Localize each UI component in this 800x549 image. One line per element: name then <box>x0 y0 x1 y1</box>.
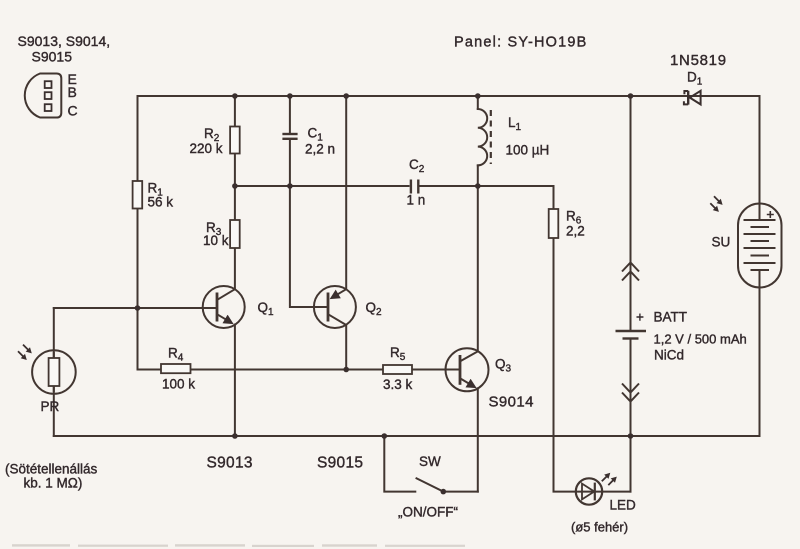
svg-text:3.3 k: 3.3 k <box>383 377 413 392</box>
svg-text:PR: PR <box>41 399 60 414</box>
svg-text:1 n: 1 n <box>407 193 426 208</box>
svg-text:S9013: S9013 <box>207 455 253 472</box>
svg-text:220 k: 220 k <box>190 141 223 156</box>
svg-text:„ON/OFF“: „ON/OFF“ <box>398 505 458 520</box>
svg-text:(ø5 fehér): (ø5 fehér) <box>571 520 628 535</box>
svg-text:56 k: 56 k <box>148 195 174 210</box>
svg-text:S9013, S9014,: S9013, S9014, <box>18 33 111 49</box>
svg-text:10 k: 10 k <box>203 233 229 248</box>
svg-text:B: B <box>68 84 77 100</box>
svg-text:100 µH: 100 µH <box>506 143 550 158</box>
svg-text:(Sötétellenállás: (Sötétellenállás <box>5 462 98 477</box>
svg-text:BATT: BATT <box>654 310 688 325</box>
svg-text:kb. 1 MΩ): kb. 1 MΩ) <box>24 476 83 491</box>
svg-text:C: C <box>68 103 78 119</box>
svg-text:+: + <box>636 310 644 325</box>
svg-text:SU: SU <box>712 235 731 250</box>
svg-text:S9015: S9015 <box>32 49 73 65</box>
svg-text:Panel: SY-HO19B: Panel: SY-HO19B <box>454 35 588 51</box>
svg-text:NiCd: NiCd <box>654 348 684 363</box>
svg-text:2,2: 2,2 <box>566 224 585 239</box>
svg-text:SW: SW <box>419 454 441 469</box>
svg-text:S9015: S9015 <box>317 455 363 472</box>
svg-text:S9014: S9014 <box>489 394 534 411</box>
svg-text:2,2 n: 2,2 n <box>305 142 335 157</box>
svg-text:1,2 V / 500 mAh: 1,2 V / 500 mAh <box>654 332 747 347</box>
svg-text:LED: LED <box>610 498 637 513</box>
svg-text:1N5819: 1N5819 <box>670 52 727 69</box>
svg-text:100 k: 100 k <box>162 377 195 392</box>
